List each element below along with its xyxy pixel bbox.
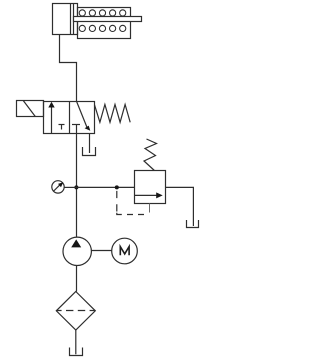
tank T1 below valve xyxy=(83,147,96,156)
tank T3 reservoir xyxy=(70,348,83,356)
roller circles top row xyxy=(79,10,126,16)
pilot line (dashed) horizontal run xyxy=(127,214,146,216)
suction line pump to filter xyxy=(76,265,78,291)
relief valve RV1 body xyxy=(135,171,166,204)
relief valve outlet line xyxy=(166,187,194,226)
valve V1 right position flow path A to T with arrowhead xyxy=(77,102,91,131)
pressure gauge G1 xyxy=(52,181,64,193)
filter F1 diamond xyxy=(56,292,95,331)
filter suction line to tank xyxy=(75,330,77,354)
valve V1 body xyxy=(44,102,95,134)
junction node A (gauge/relief branch) xyxy=(74,185,78,189)
pump P1 circle xyxy=(63,237,91,265)
solenoid actuator xyxy=(17,101,44,117)
gauge connector wire xyxy=(64,186,76,188)
pilot line stub to relief valve bottom xyxy=(149,204,151,213)
tank T2 relief outlet xyxy=(187,220,199,228)
pilot line corner dash xyxy=(117,213,122,215)
relief valve adjustment spring xyxy=(144,139,157,171)
cylinder C1 barrel xyxy=(53,4,78,35)
valve return spring xyxy=(95,105,131,123)
filter F1 element (dashed) xyxy=(56,310,95,312)
motor M1 xyxy=(112,238,138,264)
pump outlet triangle xyxy=(71,239,81,247)
roller circles bottom row xyxy=(79,25,126,31)
valve V1 left position blocked port T xyxy=(59,125,65,130)
cylinder C1 piston xyxy=(71,4,74,35)
valve V1 right position blocked port P xyxy=(72,125,80,134)
load slide box on rollers xyxy=(78,8,131,39)
main pressure line valve to pump xyxy=(76,134,78,238)
cylinder C1 piston rod xyxy=(74,17,142,22)
junction node B (pilot branch) xyxy=(115,185,119,189)
relief valve flow arrow xyxy=(135,192,163,198)
valve V1 left position flow arrow (P to A) xyxy=(48,102,54,134)
valve tank line xyxy=(89,134,91,154)
wire cylinder to valve top port xyxy=(60,35,77,102)
branch line to relief valve xyxy=(77,186,135,188)
pump-motor shaft line xyxy=(91,250,112,252)
valve V1 position divider xyxy=(69,102,71,134)
pilot line (dashed) vertical from node B xyxy=(116,191,118,212)
